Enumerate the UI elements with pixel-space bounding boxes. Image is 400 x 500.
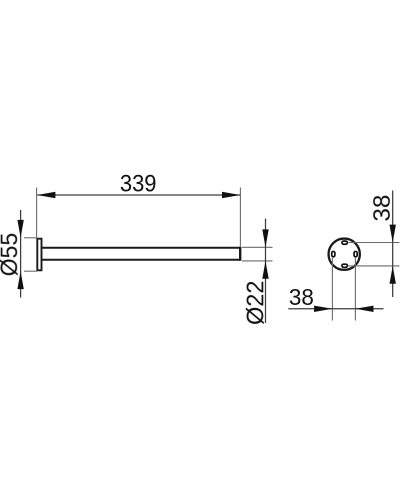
arrow diameter 22 bottom: [262, 261, 268, 279]
arrow 38 horizontal right: [355, 306, 373, 312]
screw slot right: [354, 251, 357, 256]
arrow diameter 55 top: [17, 220, 23, 238]
bar bottom edge: [42, 259, 240, 261]
extension line left for 339: [36, 188, 38, 239]
arrow 38 vertical bottom: [390, 266, 396, 284]
arrow diameter 22 top: [262, 229, 268, 247]
arrow 38 vertical top: [390, 225, 396, 243]
svg-text:339: 339: [120, 170, 157, 197]
arrow diameter 55 bottom: [17, 271, 23, 289]
extension line right for 339: [239, 188, 241, 247]
extension line from top slot: [348, 242, 399, 244]
svg-text:38: 38: [289, 284, 314, 310]
bar top edge: [42, 247, 240, 249]
extension line from right slot: [354, 258, 356, 321]
svg-text:Ø22: Ø22: [242, 281, 269, 326]
flange plate (side view): [37, 239, 41, 271]
extension line top for diameter 22: [242, 246, 273, 248]
extension line from left slot: [331, 258, 333, 321]
dimension line 339: [37, 194, 240, 196]
dimension line 38 horizontal: [288, 308, 383, 310]
extension line from bottom slot: [348, 265, 399, 267]
extension line top for diameter 55: [24, 237, 37, 239]
dimension line diameter 22: [265, 219, 267, 324]
flange circle (end view): [329, 239, 360, 270]
dimension line diameter 55: [20, 210, 22, 298]
extension line bottom for diameter 55: [24, 270, 37, 272]
svg-text:Ø55: Ø55: [0, 233, 23, 277]
arrow 339 right: [222, 192, 240, 198]
extension line bottom for diameter 22: [242, 260, 273, 262]
bar end cap: [239, 247, 241, 261]
svg-text:38: 38: [369, 195, 396, 222]
screw slot top: [342, 241, 347, 244]
screw slot left: [332, 251, 335, 256]
arrow 38 horizontal left: [314, 306, 332, 312]
dimension line 38 vertical: [392, 191, 394, 298]
arrow 339 left: [37, 192, 55, 198]
screw slot bottom: [342, 264, 347, 267]
